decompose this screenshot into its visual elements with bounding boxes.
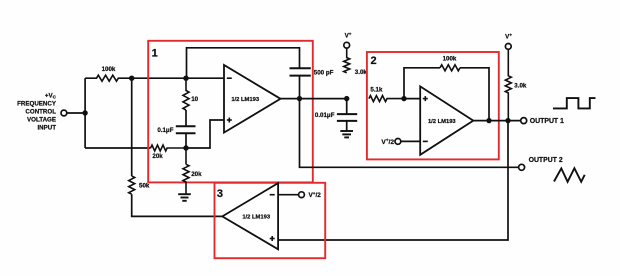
wire comparator2 plus input — [404, 98, 420, 100]
svg-text:1: 1 — [152, 47, 158, 59]
resistor R8 100k feedback — [440, 65, 460, 71]
svg-text:3.0k: 3.0k — [355, 69, 368, 76]
minus marker U2a — [270, 194, 275, 196]
svg-text:V+/2: V+/2 — [381, 138, 394, 146]
resistor R3 50k — [129, 176, 135, 194]
input terminal +Vc — [61, 110, 67, 116]
svg-text:FREQUENCY: FREQUENCY — [17, 101, 57, 108]
op-amp comparator U2a — [222, 183, 278, 249]
svg-text:1/2 LM193: 1/2 LM193 — [242, 215, 270, 221]
waveform triangle wave icon — [554, 168, 585, 182]
node A comparator1 minus — [183, 76, 188, 81]
wire comparator1 output — [281, 98, 347, 100]
plus marker U1b — [423, 98, 428, 100]
terminal V+/2 comp3 — [299, 192, 305, 198]
svg-text:20k: 20k — [152, 153, 163, 160]
node B lower junction — [183, 145, 188, 150]
wire lower input row — [85, 147, 151, 149]
svg-text:1/2 LM193: 1/2 LM193 — [428, 119, 456, 125]
terminal OUTPUT 1 — [521, 118, 527, 124]
terminal V+ right — [505, 44, 511, 50]
resistor R7 5.1k — [369, 96, 404, 102]
node comparator2 plus — [401, 96, 406, 101]
plus marker U1a — [227, 119, 232, 121]
svg-text:3: 3 — [217, 188, 223, 200]
node feedback output — [486, 118, 491, 123]
terminal OUTPUT 2 — [519, 164, 525, 170]
svg-text:1/2 LM193: 1/2 LM193 — [231, 97, 259, 103]
resistor R6 3.0k middle — [344, 48, 350, 73]
wire input to junction — [67, 112, 85, 114]
minus marker U1a — [227, 77, 232, 79]
node middle — [344, 96, 349, 101]
red box 3 — [215, 183, 326, 258]
red box 1 — [148, 41, 313, 183]
wire comparator2 minus input — [401, 140, 420, 142]
capacitor C2 0.1uF — [185, 110, 187, 126]
wire comparator1 plus input — [186, 120, 224, 148]
svg-text:INPUT: INPUT — [37, 125, 56, 132]
wire comparator3 output run — [132, 194, 223, 216]
wire feedback top rail — [187, 48, 300, 78]
svg-text:0.01μF: 0.01μF — [315, 112, 335, 119]
wire feedback rail comp2 — [404, 68, 440, 99]
op-amp comparator U1a — [224, 65, 281, 133]
node after 100k — [129, 76, 134, 81]
resistor R2 20k horizontal — [151, 145, 186, 151]
node comparator1 output — [297, 96, 302, 101]
svg-text:100k: 100k — [102, 66, 116, 73]
svg-text:VOLTAGE: VOLTAGE — [27, 117, 56, 124]
op-amp comparator U1b — [420, 86, 473, 154]
wire output1 to comparator3 plus — [278, 121, 508, 240]
wire feedback right leg — [460, 68, 489, 121]
wire node to 50k — [131, 78, 133, 176]
waveform square wave icon — [553, 98, 596, 108]
svg-text:2: 2 — [371, 55, 377, 67]
ground under 20k — [178, 193, 191, 195]
resistor R4 10 — [183, 78, 189, 110]
svg-text:10: 10 — [191, 96, 198, 103]
wire input riser — [84, 78, 86, 148]
red box 2 — [367, 52, 499, 159]
plus marker U2a — [270, 238, 275, 240]
wire comparator3 minus input — [278, 194, 299, 196]
terminal V+/2 comp2 — [395, 139, 401, 145]
node input junction — [82, 110, 87, 115]
capacitor C3 0.01uF — [346, 99, 348, 115]
capacitor C1 500 pF — [290, 67, 311, 69]
resistor R9 3.0k right — [505, 49, 511, 120]
resistor R1 100k — [85, 75, 132, 81]
wire 100k to node A — [132, 77, 224, 79]
svg-text:OUTPUT 1: OUTPUT 1 — [530, 118, 564, 125]
minus marker U1b — [423, 140, 428, 142]
ground under 0.01uF — [340, 130, 353, 132]
svg-text:CONTROL: CONTROL — [25, 109, 56, 116]
svg-text:OUTPUT 2: OUTPUT 2 — [529, 157, 563, 164]
wire comparator2 output — [473, 120, 520, 122]
terminal V+ middle — [344, 42, 350, 48]
svg-text:3.0k: 3.0k — [514, 82, 527, 89]
wire output2 run — [300, 99, 519, 168]
svg-text:500 pF: 500 pF — [314, 70, 334, 77]
svg-text:100k: 100k — [443, 56, 457, 63]
node output1 column — [505, 118, 510, 123]
svg-text:V+/2: V+/2 — [309, 191, 322, 199]
svg-text:20k: 20k — [191, 171, 202, 178]
svg-text:5.1k: 5.1k — [370, 86, 383, 93]
resistor R5 20k vertical — [185, 148, 187, 164]
svg-text:0.1μF: 0.1μF — [157, 127, 173, 134]
